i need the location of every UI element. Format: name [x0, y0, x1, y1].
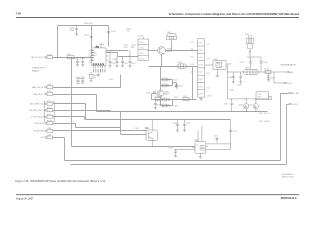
- svg-text:Schematics, Component Location: Schematics, Component Location Diagrams,…: [169, 12, 300, 16]
- svg-text:C5222: C5222: [139, 58, 144, 60]
- svg-text:L5223: L5223: [198, 86, 202, 88]
- connector stub TX_EN: [30, 101, 53, 106]
- svg-text:V_CNTL_PA_50: V_CNTL_PA_50: [31, 116, 43, 119]
- svg-text:470pF: 470pF: [70, 30, 75, 32]
- driver series R5214: [175, 85, 183, 89]
- svg-text:C5232: C5232: [198, 79, 203, 81]
- wire to Q5201 base: [148, 50, 158, 52]
- node ANT: [287, 71, 294, 74]
- svg-text:D5201: D5201: [214, 59, 219, 61]
- svg-text:C104: C104: [190, 64, 194, 66]
- diode D5202: [238, 99, 248, 112]
- U5200 pin labels: [93, 69, 105, 72]
- wire driver right post: [192, 67, 194, 100]
- node RX_IN: [284, 82, 293, 85]
- wire Q5202 base: [152, 94, 157, 100]
- svg-text:POWER SET/TX: POWER SET/TX: [32, 68, 46, 70]
- wire R5208 row: [107, 50, 129, 52]
- wire top rail: [58, 25, 109, 27]
- svg-text:R5209: R5209: [113, 59, 118, 61]
- wire driver trunk: [160, 67, 162, 106]
- svg-text:RX_EN: RX_EN: [291, 104, 298, 106]
- svg-text:R5233: R5233: [47, 114, 52, 116]
- capacitor C5228: [154, 100, 162, 109]
- resistor R5207: [127, 29, 132, 33]
- svg-text:6816532A14-A: 6816532A14-A: [281, 197, 297, 200]
- capacitor C5243: [237, 72, 242, 87]
- svg-text:L5218: L5218: [155, 96, 159, 98]
- connector stub 9.3V: [32, 84, 53, 89]
- wire riser to U5200 top: [91, 26, 93, 48]
- svg-text:7605932A14-O: 7605932A14-O: [281, 173, 294, 176]
- resistor R5208: [124, 45, 136, 49]
- svg-text:L5220: L5220: [198, 43, 202, 45]
- capacitor C5256: [229, 130, 237, 133]
- svg-text:L104: L104: [207, 88, 211, 90]
- component C5296: [256, 92, 271, 100]
- capacitor C5297: [224, 99, 234, 112]
- wire Q5203 emitter: [151, 140, 153, 146]
- svg-text:J5200: J5200: [245, 34, 249, 36]
- svg-text:L5209: L5209: [47, 128, 51, 130]
- capacitor C5214: [107, 31, 116, 33]
- svg-text:L5217: L5217: [174, 79, 178, 81]
- wire driver row B: [161, 80, 173, 86]
- driver series C5225: [162, 104, 178, 108]
- svg-text:C5241: C5241: [263, 62, 268, 64]
- svg-text:L5222: L5222: [198, 72, 202, 74]
- svg-text:C5251: C5251: [186, 123, 191, 125]
- svg-text:C101: C101: [190, 42, 194, 44]
- wire input TX_EN: [53, 103, 86, 105]
- wire input B+ loop: [53, 94, 289, 161]
- svg-text:C102: C102: [190, 49, 194, 51]
- capacitor C5204: [73, 58, 79, 66]
- wire left vertical bus: [72, 58, 196, 147]
- svg-text:CNTL_VHF_TX_E: CNTL_VHF_TX_E: [30, 104, 45, 106]
- wire filter to D5201: [205, 65, 228, 72]
- svg-text:SM07-13-04-B: SM07-13-04-B: [282, 177, 295, 179]
- header rule: [16, 16, 299, 19]
- wire switch rail: [228, 72, 268, 99]
- svg-text:FL5200: FL5200: [138, 35, 144, 37]
- polarity mark J5200: [249, 51, 251, 53]
- svg-text:R5219: R5219: [208, 96, 213, 98]
- svg-text:R5206 100K: R5206 100K: [84, 23, 94, 25]
- svg-text:ANT_SW: ANT_SW: [291, 92, 299, 95]
- svg-text:Q5202: Q5202: [164, 91, 169, 93]
- svg-text:C5227: C5227: [147, 93, 152, 95]
- svg-text:L103: L103: [207, 73, 211, 75]
- capacitor C5238: [70, 25, 79, 33]
- svg-text:C5230: C5230: [198, 50, 203, 52]
- svg-text:L102: L102: [207, 59, 211, 61]
- wire driver row C: [152, 99, 197, 101]
- svg-text:L5221: L5221: [198, 57, 202, 59]
- capacitor C5205: [80, 58, 85, 67]
- wire TX_INJ input: [53, 57, 92, 59]
- capacitor C5250: [173, 120, 180, 132]
- wire driver tap: [173, 83, 177, 87]
- svg-text:R5204: R5204: [94, 75, 99, 77]
- svg-text:PA_EN_VHF: PA_EN_VHF: [34, 130, 44, 133]
- wire U5202 risers: [198, 126, 202, 137]
- wire input V_CNTL: [53, 117, 85, 120]
- driver row C series L5219: [183, 96, 190, 101]
- svg-text:C5204: C5204: [73, 58, 78, 60]
- capacitor C5211: [113, 57, 119, 68]
- svg-text:C5226: C5226: [174, 97, 179, 99]
- svg-text:ANTENNA MATCH: ANTENNA MATCH: [281, 63, 297, 66]
- svg-text:PWR_SET_1: PWR_SET_1: [33, 94, 43, 96]
- capacitor C5253: [135, 128, 148, 130]
- driver series C5224: [162, 84, 178, 87]
- node ANT_SW: [289, 92, 300, 95]
- svg-text:C5244: C5244: [264, 69, 269, 71]
- wire U5200 right rail: [107, 53, 139, 57]
- connector stub TEMP: [30, 107, 53, 112]
- diode D5203: [248, 99, 258, 112]
- connector stub CUR_LIM: [34, 120, 53, 125]
- svg-text:C5238: C5238: [70, 28, 75, 30]
- wire antenna match tap: [274, 72, 284, 83]
- svg-text:VHF_TX_INJ_50: VHF_TX_INJ_50: [31, 57, 44, 59]
- driver series L5217: [162, 78, 178, 81]
- svg-text:E5200: E5200: [47, 54, 52, 56]
- capacitor C5210: [109, 51, 116, 68]
- svg-text:C5256: C5256: [233, 131, 238, 133]
- svg-text:TD: TD: [196, 145, 199, 147]
- IC U5202: [192, 137, 231, 156]
- wire outer loop: [71, 105, 289, 165]
- harmonic filter ladder: [198, 39, 205, 97]
- svg-text:C5295: C5295: [230, 90, 235, 92]
- svg-text:RAW_9.3V_RF: RAW_9.3V_RF: [32, 86, 43, 89]
- wire Q5203 collector: [151, 120, 153, 130]
- svg-text:C5297: C5297: [224, 103, 229, 105]
- wire control line RX: [86, 119, 231, 121]
- svg-text:9.1pF: 9.1pF: [124, 47, 128, 49]
- svg-text:ANT: ANT: [290, 71, 294, 74]
- capacitor C5227: [147, 91, 156, 94]
- svg-text:C5213: C5213: [84, 35, 89, 37]
- capacitor C5255: [214, 136, 219, 143]
- svg-text:U5200: U5200: [99, 44, 104, 46]
- svg-text:7-36: 7-36: [16, 12, 22, 16]
- connector stub B+: [41, 135, 52, 140]
- wire input TEMP: [53, 111, 111, 112]
- footer rule: [16, 193, 299, 196]
- wire J5200 drop: [247, 49, 261, 62]
- wire D5201 ground stub: [216, 69, 218, 75]
- svg-text:C5213: C5213: [131, 63, 136, 65]
- resistor R5209: [129, 51, 136, 68]
- svg-text:C5218: C5218: [131, 45, 136, 47]
- svg-text:C5243: C5243: [237, 85, 242, 87]
- svg-text:C5209: C5209: [109, 79, 114, 81]
- capacitor C5241: [260, 62, 268, 72]
- label POWER SET block: [32, 68, 46, 73]
- svg-text:C5217: C5217: [124, 45, 129, 47]
- svg-text:C5210: C5210: [111, 63, 116, 65]
- wire riser to Q5203: [121, 112, 147, 135]
- wire input PWR_SET: [53, 94, 97, 96]
- svg-text:L5240: L5240: [257, 94, 261, 96]
- capacitor C5213: [84, 35, 93, 38]
- capacitor C5242: [228, 72, 235, 83]
- inductor L5201: [178, 62, 187, 68]
- svg-text:L5216: L5216: [139, 53, 143, 55]
- capacitor C5240: [240, 62, 252, 70]
- wire Q5201 emitter drop: [161, 55, 163, 67]
- transistor Q5203: [145, 128, 158, 140]
- svg-text:C5214: C5214: [111, 31, 116, 33]
- svg-text:R5234: R5234: [47, 120, 52, 122]
- wire control line TX: [97, 111, 268, 113]
- svg-text:R5230: R5230: [47, 91, 52, 93]
- connector stub PWR_SET: [33, 91, 52, 96]
- wire riser C5214: [108, 26, 110, 47]
- ground U5202: [199, 156, 202, 158]
- wire input POWER SET riser: [53, 75, 121, 88]
- svg-text:C5225: C5225: [174, 106, 179, 108]
- svg-text:C103: C103: [190, 57, 194, 59]
- svg-text:L5210: L5210: [47, 135, 51, 137]
- wire input CUR_LIM: [53, 124, 121, 128]
- svg-text:B+: B+: [41, 137, 43, 139]
- wire input PA_EN: [53, 130, 147, 132]
- diode switch D5201: [213, 59, 226, 70]
- svg-text:C5296: C5296: [257, 97, 262, 99]
- svg-text:Q5201: Q5201: [167, 48, 172, 50]
- antenna jack J5200: [245, 34, 254, 49]
- svg-text:L5219: L5219: [183, 96, 187, 98]
- transistor Q5202: [157, 90, 169, 96]
- svg-text:M9634: M9634: [167, 51, 172, 53]
- svg-text:August 24, 2007: August 24, 2007: [16, 197, 34, 200]
- connector bracket J5202: [44, 101, 54, 121]
- svg-text:D5202: D5202: [238, 105, 243, 107]
- connector stub TX_INJ: [31, 54, 53, 59]
- wire mid rail y66: [149, 66, 198, 68]
- svg-text:PA_TEMP_VHF_1: PA_TEMP_VHF_1: [30, 109, 44, 112]
- wire Q5201 collector to filter: [166, 50, 198, 52]
- svg-text:J5201: J5201: [167, 32, 171, 34]
- transistor Q5201: [158, 47, 172, 55]
- svg-text:C106: C106: [190, 72, 194, 74]
- wire J5201 drop: [171, 41, 173, 51]
- jumper J5201: [167, 32, 177, 40]
- ground U5200: [97, 73, 100, 76]
- svg-text:C5231: C5231: [198, 64, 203, 66]
- svg-text:ENABLE: ENABLE: [32, 69, 40, 72]
- svg-text:10K: 10K: [94, 77, 97, 79]
- svg-text:L5299: L5299: [245, 68, 250, 70]
- wire control RX drop: [85, 104, 87, 120]
- svg-text:L5201: L5201: [178, 62, 183, 64]
- wire driver row A: [161, 79, 173, 81]
- capacitor C5226: [163, 97, 179, 101]
- svg-text:R5214: R5214: [179, 85, 184, 87]
- svg-text:R5232: R5232: [47, 107, 52, 109]
- wire top rail left drop: [57, 26, 59, 58]
- svg-text:C5242: C5242: [228, 77, 233, 79]
- capacitor C5245: [267, 74, 275, 82]
- svg-text:C5206 C5207: C5206 C5207: [76, 77, 85, 79]
- svg-text:L5204: L5204: [67, 54, 72, 56]
- wire driver row D: [161, 100, 173, 106]
- node RX_EN: [289, 103, 298, 106]
- svg-text:C5228: C5228: [157, 105, 162, 107]
- svg-text:C5255: C5255: [214, 136, 219, 138]
- wire control TX drop: [96, 95, 98, 112]
- connector stub PA_EN: [34, 128, 53, 133]
- svg-text:M9635: M9635: [164, 94, 169, 96]
- svg-text:CNTL_VHF_TX: CNTL_VHF_TX: [259, 113, 270, 115]
- svg-text:R5207: R5207: [127, 29, 132, 31]
- capacitor C5212: [121, 57, 128, 68]
- svg-text:C5235: C5235: [227, 64, 232, 66]
- ground D5201: [216, 76, 219, 78]
- svg-text:C5221: C5221: [139, 48, 144, 50]
- capacitor C5244: [264, 69, 271, 74]
- IC U5200: [89, 44, 109, 69]
- capacitor C5254: [169, 148, 196, 158]
- capacitor C5251: [183, 120, 191, 132]
- ground C5238: [75, 33, 78, 36]
- svg-text:43pF: 43pF: [131, 47, 135, 49]
- connector stub V_CNTL: [31, 114, 53, 119]
- wire U5200 left rail: [78, 57, 92, 59]
- wire PA output: [227, 71, 288, 73]
- resistor R5204: [89, 72, 98, 81]
- ladder side labels: [190, 42, 210, 76]
- junction Q5203: [119, 111, 152, 147]
- svg-text:C5240: C5240: [240, 62, 245, 64]
- inductor L5299: [244, 68, 259, 75]
- svg-text:10K: 10K: [127, 31, 131, 33]
- svg-text:L5208: L5208: [47, 84, 51, 86]
- svg-text:L101: L101: [207, 44, 211, 46]
- wire U5202 right post: [230, 120, 232, 150]
- svg-text:C5205: C5205: [80, 58, 85, 60]
- svg-text:RX_IN: RX_IN: [286, 83, 292, 85]
- svg-text:Figure 7-26. HUCD4025A RF Powe: Figure 7-26. HUCD4025A RF Power Amplifie…: [15, 179, 105, 183]
- junction dots: [57, 57, 275, 112]
- svg-text:CNTL_VHF_RX: CNTL_VHF_RX: [259, 121, 270, 123]
- svg-text:C5253: C5253: [135, 128, 140, 130]
- svg-text:U5202: U5202: [194, 140, 199, 142]
- svg-text:C5212: C5212: [124, 63, 129, 65]
- capacitor C5206 group: [76, 77, 85, 84]
- inductor L5204: [67, 54, 75, 59]
- svg-text:C5254: C5254: [169, 148, 174, 150]
- svg-text:C5250: C5250: [173, 123, 178, 125]
- driver row C series L5218: [155, 96, 162, 101]
- ground ladder: [199, 97, 202, 100]
- svg-text:D5203: D5203: [248, 105, 253, 107]
- svg-text:C5233: C5233: [198, 94, 203, 96]
- svg-text:L5215: L5215: [139, 42, 143, 44]
- svg-text:R5231: R5231: [47, 101, 52, 103]
- filter box FL5200: [138, 35, 148, 60]
- svg-text:CUR_LIM_A: CUR_LIM_A: [34, 122, 44, 125]
